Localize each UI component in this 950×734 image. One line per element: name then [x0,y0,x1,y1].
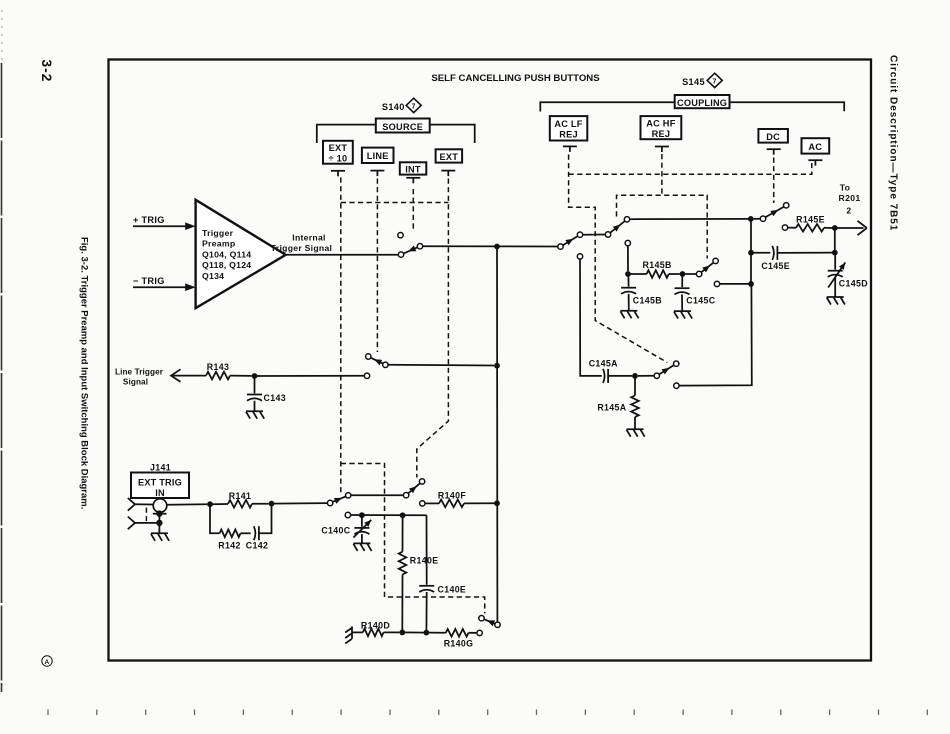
switch label S140 [382,98,421,112]
ruler ticks [48,710,927,716]
svg-text:EXT: EXT [439,152,458,162]
svg-text:R201: R201 [839,193,861,203]
node junction R140F/bus [494,500,500,506]
svg-text:− TRIG: − TRIG [133,276,165,286]
plunger AC [808,160,822,166]
node junction R140E top [400,512,406,518]
ground C140C [353,543,371,551]
switch EXT div10 section [327,493,403,506]
switch label S145 [682,73,722,87]
resistor R140D [352,620,399,636]
resistor R145A [597,376,638,429]
switch C145A section [638,361,679,378]
minus TRIG input [133,276,196,291]
svg-text:C145E: C145E [761,261,790,271]
ground R145A [627,429,645,437]
node contact C145A lower [674,383,679,388]
svg-text:Circuit Description—Type 7B51: Circuit Description—Type 7B51 [887,55,898,231]
dashed link EXT div10 [341,178,485,614]
svg-text:2: 2 [846,205,851,215]
svg-text:7: 7 [713,77,717,86]
wire R145E junction down [834,228,836,253]
svg-text:EXT: EXT [329,143,348,153]
resistor R142 [210,504,251,550]
node junction C145E right [832,250,838,256]
svg-text:A: A [44,659,49,666]
node line trigger signal [115,367,164,386]
plunger EXT div10 [331,171,345,177]
svg-text:SELF CANCELLING PUSH BUTTONS: SELF CANCELLING PUSH BUTTONS [431,73,600,84]
button AC HF REJ [641,116,682,139]
capacitor C145B [621,274,662,310]
wire J141 to R141 [167,503,207,506]
node junction R145E out [832,225,838,231]
node internal trigger signal [271,233,333,253]
node To R201 2 [839,183,861,216]
plunger INT [406,178,420,184]
wire R141 to switch [272,502,328,505]
resistor R143 [206,362,252,380]
node junction C140C [359,512,365,518]
node junction line trig/bus [494,363,500,369]
svg-text:C145C: C145C [686,296,715,306]
switch AC LF REJ section [558,232,583,249]
node junction main/vertical [494,244,500,250]
switch R145B out [685,258,718,277]
svg-text:Trigger: Trigger [202,228,234,238]
wire to DC switch [630,218,751,220]
svg-text:R140F: R140F [438,491,466,501]
schematic border frame [109,60,872,661]
node contact R140G [477,630,482,635]
svg-text:REJ: REJ [559,130,578,140]
svg-text:AC: AC [808,142,822,152]
svg-text:C145B: C145B [633,296,662,306]
svg-text:C145D: C145D [839,278,868,288]
plus TRIG input [133,215,196,230]
wire junction to switch [255,375,365,377]
dashed link EXT [417,179,449,478]
svg-text:To: To [840,183,851,193]
svg-text:EXT TRIG: EXT TRIG [138,477,182,487]
svg-text:R145B: R145B [643,260,672,270]
right header [887,55,898,231]
dashed link AC HF REJ [617,154,708,259]
svg-text:÷ 10: ÷ 10 [328,153,347,163]
svg-text:7: 7 [412,102,416,111]
capacitor C145D variable [828,253,868,297]
wire AC LF REJ throw down [577,254,602,376]
button EXT [436,149,463,162]
switch AC HF REJ section [605,217,629,238]
op-amp trigger preamp [196,200,286,308]
figure caption [80,237,91,509]
svg-text:REJ: REJ [652,129,671,139]
switch EXT section [403,479,424,498]
svg-text:R145E: R145E [796,214,825,224]
page number 3-2 [39,59,55,82]
svg-text:S140: S140 [382,102,405,112]
dashed link DC [773,158,775,204]
capacitor C140E [419,515,466,632]
capacitor C145A [589,358,632,383]
node junction at DC switch [748,216,754,222]
wire lower contact to bus [714,281,751,286]
node junction C145E left [748,250,754,256]
node junction R141 left [207,501,213,507]
svg-text:Fig. 3-2. Trigger Preamp and: Fig. 3-2. Trigger Preamp and Input Switc… [80,237,91,509]
capacitor C145C [675,274,716,311]
svg-text:Line Trigger: Line Trigger [115,367,164,376]
ground C145D [827,297,845,305]
switch EXT div10 lower [479,616,500,628]
ground R140D [345,626,352,643]
plunger AC LF REJ [563,146,577,152]
node junction C140E bottom [424,630,430,636]
svg-text:INT: INT [405,164,421,174]
svg-text:IN: IN [155,488,165,498]
svg-text:Trigger Signal: Trigger Signal [271,243,333,253]
wire bottom row [402,631,426,633]
svg-text:AC LF: AC LF [554,119,582,129]
svg-text:R140D: R140D [361,620,390,630]
node junction R140E bottom [399,630,405,636]
svg-text:R145A: R145A [597,403,626,413]
wire right bus to C145A row [679,284,752,386]
svg-text:C145A: C145A [589,358,618,368]
resistor R141 [210,491,269,508]
svg-text:AC HF: AC HF [646,119,675,129]
button EXT div10 [323,141,353,164]
capacitor C145E [751,246,835,271]
svg-text:DC: DC [766,132,780,142]
circled A mark [42,656,52,666]
wire between coupling switches [583,234,606,236]
svg-text:R141: R141 [229,491,251,501]
svg-text:R140E: R140E [410,555,439,565]
svg-text:Q118, Q124: Q118, Q124 [202,260,251,270]
capacitor C142 [246,504,272,551]
svg-text:C143: C143 [264,393,286,403]
wire output arrow To R201 [835,221,867,235]
wire preamp output [286,254,399,256]
node junction C145A/R145A [632,373,638,379]
scan edge line [1,10,4,692]
svg-text:SOURCE: SOURCE [382,122,423,132]
svg-text:+ TRIG: + TRIG [133,215,165,225]
ground C145C [674,311,692,319]
button AC LF REJ [550,116,588,140]
dashed link AC LF REJ [569,155,668,363]
svg-text:R140G: R140G [444,638,474,648]
node junction right bus lower [748,281,754,287]
node junction R143/C143 [252,373,258,379]
svg-text:J141: J141 [150,463,171,473]
resistor R145B [628,260,680,278]
connector J141 [128,498,167,533]
switch S140 INT section [398,233,423,258]
svg-text:C140C: C140C [321,525,350,535]
svg-text:R143: R143 [207,362,229,372]
ground J141 [151,533,169,541]
svg-text:Preamp: Preamp [202,239,235,249]
svg-text:Internal: Internal [292,233,325,243]
wire to coupling [423,245,558,247]
svg-text:3-2: 3-2 [39,59,55,82]
node EXT TRIG IN [131,473,189,499]
SOURCE box [376,119,430,133]
dashed link INT [412,189,414,231]
plunger AC HF REJ [655,147,669,153]
plunger LINE [370,171,384,177]
plunger DC [767,149,781,155]
resistor R140F [420,491,497,508]
dashed link LINE [376,179,378,353]
node junction R141 right [269,501,275,507]
wire C145B top contact [625,240,630,271]
switch line trigger [364,354,494,379]
button DC [758,129,788,143]
ground C143 [246,411,264,419]
svg-text:COUPLING: COUPLING [677,98,727,108]
SOURCE bracket [317,125,475,143]
dashed linkage bar COUPLING [569,163,812,174]
svg-text:LINE: LINE [367,151,389,161]
capacitor C140C variable [321,515,371,543]
resistor R145E [782,214,832,231]
svg-text:Signal: Signal [123,378,148,387]
wire line trigger arrow [171,369,206,382]
svg-text:C140E: C140E [438,585,467,595]
ground C145B [620,311,638,319]
switch DC section [754,203,789,222]
button INT [400,162,427,174]
wire right vertical bus [750,219,752,284]
svg-text:Q104, Q114: Q104, Q114 [202,249,251,259]
capacitor C143 [247,376,286,411]
svg-text:R142: R142 [218,540,240,550]
node junction R145B right [680,271,686,277]
svg-text:Q134: Q134 [202,271,224,281]
resistor R140G [429,629,477,648]
svg-text:C142: C142 [246,540,268,550]
svg-text:S145: S145 [682,77,705,87]
wire attenuator row [345,512,426,517]
button AC [802,138,830,153]
COUPLING bracket [540,102,844,111]
plunger EXT [441,171,455,177]
dashed linkage bar SOURCE [341,202,449,204]
button LINE [362,148,394,163]
COUPLING box [675,95,730,108]
node junction R145B left [625,271,631,277]
wire main vertical bus [496,247,498,623]
resistor R140E [399,515,439,632]
